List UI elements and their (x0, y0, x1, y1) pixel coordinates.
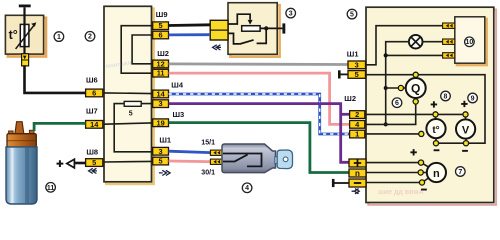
Q terminal top (413, 72, 418, 77)
component 3 output line (260, 27, 282, 29)
wire Ш4/14 to block5 Ш2/1 (blue-white) (169, 94, 350, 134)
svg-text:14: 14 (90, 120, 99, 129)
t° terminal bottom (433, 141, 438, 146)
pin Ш6/6 (86, 89, 103, 98)
wire Ш9/5 to component3 (black) (169, 23, 211, 27)
svg-text:14: 14 (156, 90, 165, 99)
svg-text:1: 1 (57, 34, 61, 41)
stub V bottom (465, 138, 467, 143)
ignition coil (component 11) (6, 122, 37, 204)
svg-text:t°: t° (432, 125, 439, 136)
wire Ш1/5 block2 to ignition switch 30/1 (pink) (169, 160, 211, 163)
svg-text:4: 4 (245, 185, 249, 192)
numbered circle 11 (46, 183, 56, 193)
trace Ш2/4 to Q minus (365, 102, 416, 125)
wire Ш9/6 to component3 (blue) (169, 33, 211, 36)
coil cap (7, 134, 36, 147)
numbered circle 6 (392, 98, 402, 108)
svg-text:Ш9: Ш9 (156, 10, 168, 19)
component 3 internals: feed path with arrow onto resistor (228, 14, 250, 24)
component 3 connector (210, 20, 228, 40)
pin block5 plus (349, 159, 366, 167)
block 2 internal trace Ш9/6 to Ш2/12 (132, 35, 152, 64)
ignition switch (component 4) (201, 138, 292, 176)
trace n pin to n gauge (366, 172, 427, 174)
block5 trace Ш1/3 to comp10 top (366, 26, 444, 65)
plus sign t° (431, 101, 437, 107)
trace Q left (386, 87, 406, 89)
svg-text:Ш3: Ш3 (173, 110, 185, 119)
V terminal bottom (463, 141, 468, 146)
svg-text:V: V (462, 124, 470, 136)
block 2 fuse feed trace to Ш1/3 (114, 104, 152, 152)
svg-text:Ш2: Ш2 (157, 49, 169, 58)
pin block5 Ш1/3 (348, 60, 366, 69)
svg-text:10: 10 (466, 39, 474, 46)
switch internal contact (223, 154, 262, 167)
svg-text:t°: t° (9, 28, 18, 42)
svg-text:5: 5 (159, 157, 163, 166)
junction node (264, 26, 268, 30)
component 10 pin middle (443, 39, 455, 44)
svg-text:Ш8: Ш8 (86, 147, 98, 156)
warning lamp (409, 35, 423, 49)
wire sensor to Ш6/6 (black) (25, 65, 86, 93)
sensor wire vertical (23, 7, 25, 55)
key hole (283, 157, 288, 162)
pin Ш1/3 (block2) (153, 147, 169, 156)
switch pin 15/1 (210, 150, 222, 155)
node trace to comp10 bottom (386, 54, 443, 56)
svg-text:n: n (433, 168, 440, 180)
block 5 instrument cluster body (366, 7, 496, 205)
wire coil to Ш7/14 (green) (34, 123, 86, 131)
pin Ш1/5 (block2) (153, 157, 169, 166)
svg-text:шие дд ввмА: шие дд ввмА (378, 189, 424, 196)
component 3 resistor (242, 26, 260, 32)
voltmeter V (component 9) (456, 119, 475, 138)
pin Ш8/5 (86, 158, 103, 167)
sensor variable arrow (16, 25, 35, 49)
numbered circle 5 (347, 9, 357, 19)
svg-text:2: 2 (88, 34, 92, 41)
Q terminal bottom (413, 99, 418, 104)
n terminal top-left (418, 160, 423, 165)
arrow out below Ш1/5 (block2) (159, 170, 170, 175)
coil terminal right (29, 130, 34, 136)
wire triangle to Ш8/5 (black) (75, 162, 86, 165)
block 2 internal trace Ш6/6 to Ш4/14 (104, 92, 152, 95)
svg-text:6: 6 (395, 100, 399, 107)
pin Ш9/6 (153, 31, 169, 40)
svg-text:5: 5 (92, 158, 96, 167)
svg-text:15/1: 15/1 (201, 138, 215, 146)
pin block5 Ш2/4 (350, 120, 365, 129)
svg-text:9: 9 (471, 95, 475, 102)
key shaft (275, 157, 278, 164)
svg-text:12: 12 (156, 60, 164, 69)
numbered circle 8 (441, 91, 451, 101)
svg-text:11: 11 (157, 69, 165, 78)
numbered circle 2 (85, 32, 95, 42)
key head (277, 150, 292, 169)
temperature sensor box (component 1) (5, 15, 46, 56)
pin Ш2/12 (153, 60, 169, 69)
svg-text:19: 19 (156, 118, 164, 127)
numbered circle 4 (242, 183, 252, 193)
component 10 display box (455, 17, 487, 65)
svg-text:Ш4: Ш4 (171, 81, 184, 90)
arrow out below Ш8/5 (89, 168, 97, 173)
wire Ш1/3 block2 to ignition switch 15/1 (blue) (169, 151, 211, 152)
svg-text:Ш7: Ш7 (86, 107, 98, 116)
svg-text:3: 3 (355, 60, 359, 69)
trace Ш2/1 to t° left (365, 133, 421, 135)
stub t° bottom (435, 138, 437, 143)
minus sign n (421, 189, 427, 191)
numbered circle 3 (286, 8, 296, 18)
pin Ш2/11 (153, 69, 169, 78)
stub V top (465, 114, 467, 119)
ground bar at minus pin (334, 182, 349, 184)
numbered circle 9 (468, 93, 478, 103)
block 2 internal trace Ш7/14 to Ш3/19 (104, 123, 152, 124)
svg-text:n: n (355, 169, 360, 178)
plus sign n (410, 149, 416, 155)
svg-text:5: 5 (129, 111, 133, 118)
wire Ш3/19 to block5 n pin (green) (169, 123, 349, 173)
wire Ш2/12 to block5 Ш1/3 (gray) (169, 63, 348, 66)
pin block5 Ш2/1 (350, 130, 365, 139)
output T-bar terminal (282, 23, 285, 33)
coil terminal left (9, 131, 14, 137)
lamp right trace to comp10 middle (422, 41, 443, 43)
pin block5 minus (349, 179, 366, 187)
svg-text:1: 1 (355, 130, 359, 139)
component 3 switch branch (228, 30, 266, 44)
svg-text:5: 5 (159, 21, 163, 30)
junction node B (384, 86, 388, 90)
block 2 internal trace Ш9/5 to Ш2/11 (121, 26, 152, 73)
svg-text:Q: Q (411, 82, 420, 96)
ground bar at Ш1/5 (340, 73, 348, 75)
svg-text:Ш1: Ш1 (347, 49, 359, 58)
lamp left trace to node column (386, 42, 410, 125)
svg-text:Ш6: Ш6 (86, 76, 98, 85)
tachometer n (component 7) (427, 163, 446, 182)
svg-text:3: 3 (159, 99, 163, 108)
numbered circle 10 (465, 37, 475, 47)
V terminal top (463, 112, 468, 117)
n terminal left (418, 170, 423, 175)
n terminal bottom-left (419, 180, 424, 185)
svg-text:6: 6 (159, 31, 163, 40)
ground T-bar above sensor (19, 5, 31, 8)
switch body (222, 144, 276, 173)
numbered circle 1 (54, 32, 64, 42)
coil body (6, 147, 37, 204)
svg-text:Ш1: Ш1 (159, 136, 171, 145)
junction node C (384, 122, 388, 126)
t° terminal top (433, 112, 438, 117)
pin Ш7/14 (86, 120, 103, 129)
sensor resistor element (20, 24, 29, 46)
svg-text:7: 7 (458, 169, 462, 176)
plus sign V (461, 101, 467, 107)
minus sign V (462, 150, 468, 152)
svg-text:3: 3 (289, 11, 293, 18)
stub t° top (435, 114, 437, 119)
arrow out below component3 connector (213, 45, 221, 50)
pin block5 n (349, 169, 366, 178)
temp gauge t° (component 8) (426, 119, 445, 138)
arrow out below minus pin (352, 189, 360, 194)
svg-text:8: 8 (444, 93, 448, 100)
junction node A (384, 53, 388, 57)
svg-text:2: 2 (355, 110, 359, 119)
t° terminal left (419, 131, 424, 136)
Q terminal left (398, 85, 403, 90)
trace minus pin to n gauge (366, 177, 430, 182)
fuse F5 (124, 101, 141, 106)
svg-text:6: 6 (92, 89, 96, 98)
plus bus Ш2/2 to gauges (365, 113, 466, 115)
block 2 internal trace Ш8/5 to Ш1/5 (104, 160, 152, 163)
minus sign t° (434, 149, 440, 151)
svg-text:5: 5 (355, 70, 359, 79)
svg-text:Ш2: Ш2 (344, 94, 356, 103)
wire Ш2/11 to block5 Ш2/4 (pink) (169, 73, 350, 124)
pin block5 Ш2/2 (350, 110, 365, 119)
block 2 fuse box body (104, 6, 154, 184)
fuel gauge Q (component 6) (406, 78, 426, 98)
svg-text:11: 11 (47, 185, 55, 192)
pin Ш4/14 (153, 90, 169, 99)
sensor connector (22, 54, 29, 66)
pin block5 Ш1/5 (348, 70, 366, 79)
wire Ш4/3 to block5 Ш2/2 and + pin (purple) (169, 104, 349, 163)
trace plus pin to n gauge (366, 163, 430, 168)
svg-text:3: 3 (159, 147, 163, 156)
svg-text:30/1: 30/1 (201, 169, 215, 177)
ground bus Ш1/5 right (366, 75, 486, 144)
component 10 pin bottom (443, 53, 455, 58)
svg-text:5: 5 (350, 12, 354, 19)
coil HV tower (15, 122, 24, 134)
pin Ш3/19 (153, 118, 169, 127)
component 3 box (indicator relay) (228, 3, 280, 57)
component 10 pin top (443, 23, 455, 28)
pin Ш4/3 (153, 99, 169, 108)
pin Ш9/5 (153, 21, 169, 30)
switch pin 30/1 (210, 159, 222, 164)
plus-triangle feed symbol at Ш8/5 (67, 159, 75, 168)
numbered circle 7 (456, 167, 466, 177)
